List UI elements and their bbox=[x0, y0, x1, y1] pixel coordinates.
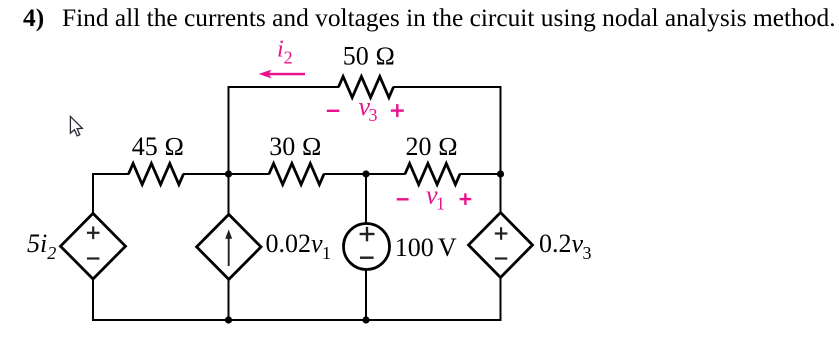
current arrow i2 bbox=[259, 70, 306, 79]
minus sign in 100V bbox=[360, 257, 374, 259]
svg-text:Find all the currents and volt: Find all the currents and voltages in th… bbox=[62, 4, 836, 32]
junction node 1 (bottom) bbox=[225, 316, 232, 323]
wire: node2 down to 100V source bbox=[365, 174, 367, 224]
arrow inside 0.02v1 bbox=[225, 230, 232, 267]
mouse cursor bbox=[70, 116, 82, 135]
wire: node1 down to 0.02v1 source bbox=[228, 174, 230, 215]
wire: main segment 45ohm to 30ohm bbox=[183, 173, 270, 175]
svg-text:30 Ω: 30 Ω bbox=[269, 132, 321, 161]
junction node 3 (main right) bbox=[497, 170, 504, 177]
polarity label - v1 + bbox=[397, 181, 472, 214]
junction node 2 (main) bbox=[362, 170, 369, 177]
wire: main segment 30ohm to 20ohm bbox=[324, 173, 406, 175]
junction node 2 (bottom) bbox=[362, 316, 369, 323]
svg-text:100 V: 100 V bbox=[395, 233, 457, 262]
polarity label - v3 + bbox=[327, 92, 404, 125]
plus sign in 0.2v3 bbox=[495, 227, 508, 240]
wire: 0.02v1 bottom to bottom rail bbox=[228, 279, 230, 321]
dependent current source 0.02v1 (diamond) bbox=[197, 214, 261, 279]
junction node 1 (main) bbox=[225, 170, 232, 177]
wire: bottom rail bbox=[92, 319, 502, 321]
wire: main segment 20ohm to right node bbox=[460, 173, 502, 175]
wire: right branch vertical down bbox=[500, 86, 502, 174]
svg-text:45 Ω: 45 Ω bbox=[132, 132, 184, 161]
minus sign in 0.2v3 bbox=[495, 257, 507, 259]
wire: node1 vertical up to top branch bbox=[228, 86, 230, 174]
dependent voltage source 0.2v3 (diamond) bbox=[469, 213, 533, 278]
plus sign in 100V bbox=[360, 227, 375, 242]
resistor 45ohm bbox=[129, 164, 184, 185]
svg-text:50 Ω: 50 Ω bbox=[343, 42, 395, 71]
resistor 20ohm bbox=[405, 164, 460, 185]
wire: 100V bottom to bottom rail bbox=[365, 270, 367, 322]
wire: 0.2v3 bottom to bottom rail bbox=[500, 277, 502, 321]
resistor 30ohm bbox=[269, 164, 324, 185]
independent voltage source 100V (circle) bbox=[344, 224, 390, 270]
minus sign in 5i2 bbox=[87, 257, 99, 259]
wire: right node down to 0.2v3 source bbox=[500, 174, 502, 213]
svg-text:20 Ω: 20 Ω bbox=[406, 132, 458, 161]
wire: 5i2 bottom to bottom rail bbox=[92, 279, 94, 322]
wire: left branch down from main to 5i2 source bbox=[92, 173, 94, 214]
wire: top branch right segment bbox=[393, 86, 502, 88]
resistor 50ohm bbox=[339, 77, 394, 98]
dependent voltage source 5i2 (diamond) bbox=[61, 213, 126, 279]
plus sign in 5i2 bbox=[87, 227, 100, 240]
svg-text:4): 4) bbox=[23, 4, 44, 32]
wire: main left segment from 5i2 branch to 45ohm bbox=[92, 173, 129, 175]
svg-text:0.02v1: 0.02v1 bbox=[266, 229, 332, 263]
wire: top branch left segment bbox=[228, 86, 340, 88]
